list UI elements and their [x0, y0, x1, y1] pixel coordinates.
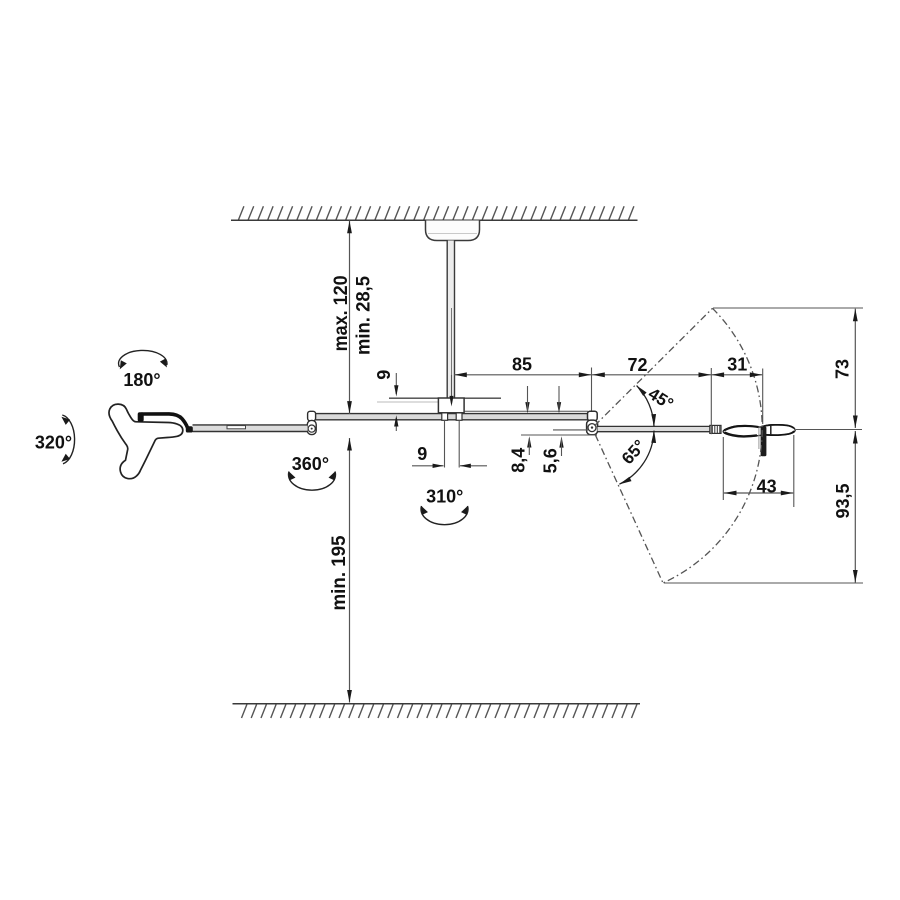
rotation 180 deg indicator — [119, 350, 167, 367]
extension line at arm end — [710, 368, 712, 434]
svg-text:180°: 180° — [123, 370, 160, 390]
handle bracket on head (thick black hook) — [140, 414, 187, 428]
fan motion range: outer arc — [663, 308, 762, 583]
blade bottom-right edge — [764, 431, 794, 435]
left light head (trefoil) — [109, 404, 183, 479]
ceiling mount dome — [426, 221, 480, 241]
65-deg angle arc — [619, 431, 654, 485]
label sticker on forearm — [227, 426, 246, 429]
dim 43 under head — [722, 437, 724, 500]
svg-text:43: 43 — [757, 477, 777, 497]
horizontal dim line 85/72/31 — [454, 374, 762, 376]
svg-text:320°: 320° — [35, 432, 72, 452]
svg-text:8,4: 8,4 — [509, 448, 529, 473]
svg-text:max. 120: max. 120 — [330, 275, 352, 351]
blade top-left edge — [724, 426, 758, 430]
hub flange line — [389, 397, 501, 399]
svg-text:31: 31 — [727, 355, 747, 375]
extension line arm level right — [796, 429, 862, 431]
blade bottom-left edge — [724, 433, 757, 437]
svg-text:85: 85 — [512, 355, 532, 375]
dim 73 vertical — [854, 309, 856, 428]
handle left end block — [138, 412, 144, 422]
extension line fan bottom — [664, 582, 863, 584]
right lower arm band — [598, 426, 711, 431]
left elbow joint lower ring — [307, 420, 316, 434]
svg-text:72: 72 — [627, 355, 647, 375]
rotation 360 deg indicator — [288, 472, 335, 491]
pole axis pointer — [451, 375, 453, 404]
extension line fan top — [713, 307, 863, 309]
right light head blade — [723, 425, 795, 437]
floor line — [233, 703, 641, 705]
svg-text:min. 195: min. 195 — [328, 535, 350, 610]
right spring joint lower ring — [587, 420, 598, 435]
drop pole — [447, 241, 454, 399]
blade top-right edge — [764, 425, 795, 428]
rotation 310 deg indicator — [421, 506, 468, 525]
ceiling hatch — [239, 206, 244, 220]
left elbow joint upper part — [308, 411, 316, 421]
svg-text:9: 9 — [374, 370, 394, 380]
svg-text:9: 9 — [417, 444, 427, 464]
svg-text:73: 73 — [832, 359, 852, 379]
extension line at head pin — [762, 369, 764, 425]
handle end block — [186, 426, 193, 432]
left forearm band — [193, 425, 308, 432]
arm end ribbed coupling — [710, 425, 721, 433]
fan motion range: 45-deg line — [595, 308, 713, 426]
rotation 320 deg indicator — [62, 415, 74, 464]
svg-text:5,6: 5,6 — [541, 448, 561, 473]
ceiling line — [231, 219, 638, 221]
floor hatch — [242, 704, 247, 718]
dim 8,4 and 5,6 — [525, 402, 529, 413]
extension line at joint axis — [591, 368, 593, 411]
svg-text:93,5: 93,5 — [833, 483, 853, 518]
hub legs through arm band — [442, 413, 448, 420]
upper spring arm band — [316, 414, 589, 420]
svg-text:min. 28,5: min. 28,5 — [352, 276, 374, 355]
central hub block — [438, 398, 464, 413]
45-deg angle arc — [637, 386, 654, 427]
hub base line — [465, 410, 589, 412]
fan motion range: 65-deg line — [595, 435, 663, 583]
svg-text:310°: 310° — [426, 486, 463, 506]
dim min195 vertical line — [349, 438, 351, 703]
svg-text:360°: 360° — [292, 454, 329, 474]
right spring joint upper ring — [588, 411, 598, 420]
dim 93,5 vertical — [854, 431, 856, 583]
dim max120/min28,5 vertical line — [349, 221, 351, 415]
head handle pin — [758, 428, 760, 450]
